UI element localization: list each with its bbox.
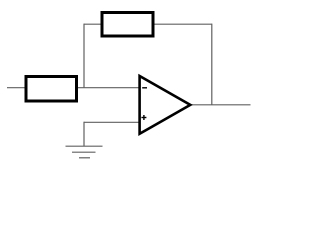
wire: feedback left vertical segment down to inverting node xyxy=(83,24,85,88)
resistor R1 (input) xyxy=(26,77,77,102)
ground xyxy=(66,146,103,158)
wire: input lead to R1 xyxy=(7,87,25,89)
wire: non-inverting input horizontal segment xyxy=(84,121,139,123)
wire: feedback right vertical segment down to output node xyxy=(211,24,213,105)
wire: non-inverting input vertical segment down to ground xyxy=(83,122,85,147)
wire: R1 to op-amp inverting input (node between R1 and U1) xyxy=(78,87,140,89)
op-amp inverting input label (-) xyxy=(142,87,147,89)
op-amp U1 xyxy=(140,76,191,134)
wire: op-amp output lead xyxy=(190,104,251,106)
wire: feedback right horizontal segment from R2 xyxy=(155,23,212,25)
wire: feedback left horizontal segment to R2 xyxy=(84,23,101,25)
op-amp non-inverting input label (+) xyxy=(141,115,146,120)
resistor R2 (feedback) xyxy=(102,13,153,37)
